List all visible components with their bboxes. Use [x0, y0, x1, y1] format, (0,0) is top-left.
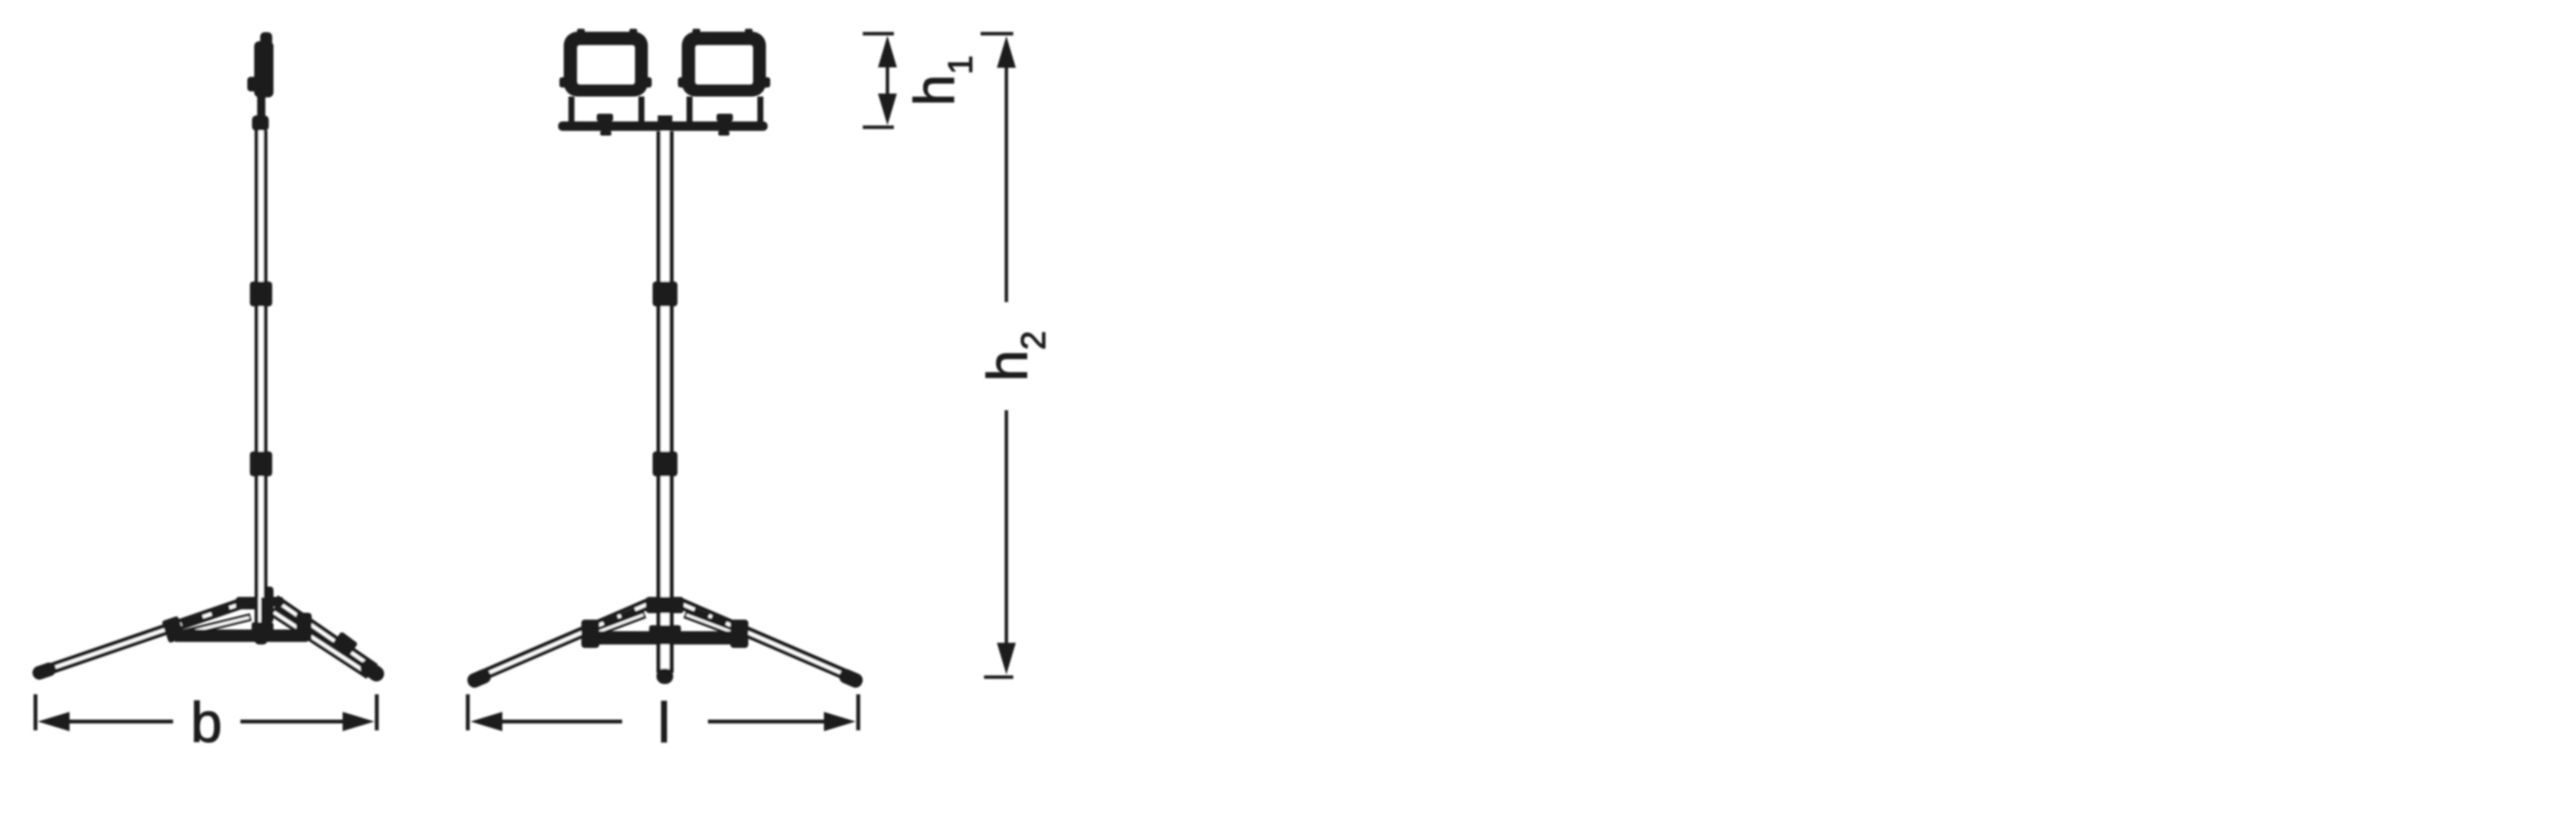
- front view: right brace tube white core: [687, 615, 736, 634]
- front view: left head right pivot ear: [642, 77, 652, 88]
- side view: hub right lobe: [270, 597, 283, 607]
- front view: tripod hub block: [646, 597, 684, 614]
- dimension b: left line segment: [68, 719, 173, 723]
- dimension h1: up arrowhead: [878, 36, 897, 68]
- front view: left head top screw bumps: [577, 29, 585, 34]
- dimension h2: down arrowhead: [997, 643, 1016, 675]
- front view: right leg sleeve dash 1: [692, 608, 709, 621]
- dimension h1: connecting line: [886, 66, 890, 95]
- side view: pole collar clamp 1: [250, 281, 272, 306]
- front view: left head tab above crossbar: [597, 114, 613, 122]
- front view: right leg sleeve dash 2: [709, 614, 726, 628]
- front view: tab under crossbar left: [600, 131, 611, 136]
- svg-text:l: l: [658, 691, 671, 754]
- dimension b: right line segment: [240, 719, 344, 723]
- dimension h2: bottom tick: [984, 675, 1013, 679]
- front view: left yoke left arm: [568, 97, 574, 123]
- side view: pole collar clamp 2: [250, 451, 272, 476]
- side view: front foot cap: [31, 661, 58, 681]
- side view: front leg sleeve dash 2: [180, 614, 204, 629]
- front view: right yoke right arm: [757, 97, 763, 123]
- front view: mounting crossbar: [558, 122, 768, 131]
- dimension b: left arrowhead: [38, 712, 70, 732]
- front view: slider block on pole: [649, 626, 681, 642]
- dimension h1: down arrowhead: [878, 94, 897, 125]
- front view: left leg clamp block: [581, 620, 599, 648]
- front view: right leg clamp block: [731, 620, 749, 648]
- dimension l: left arrowhead: [471, 712, 502, 732]
- dimension h1: bottom tick: [863, 125, 894, 129]
- front view: pole collar clamp 1: [653, 281, 677, 306]
- side view: rear leg tube A white core: [276, 602, 373, 668]
- front view: left brace tube white core: [594, 615, 643, 634]
- front view: right brace tube black: [685, 614, 738, 634]
- dimension l: left line segment: [501, 719, 623, 723]
- front view: left head left pivot ear: [560, 77, 569, 88]
- side view: rear leg tube B white core: [274, 613, 368, 674]
- side view: front leg sleeve dash 1: [210, 604, 231, 619]
- dimension l: right extension tick: [856, 694, 860, 730]
- side view: yoke arm edge-on: [258, 94, 266, 118]
- front view: center block above crossbar: [658, 116, 672, 123]
- front view: right head right pivot ear: [761, 77, 770, 88]
- side view: front leg tube white core: [46, 605, 239, 671]
- dimension l: left extension tick: [466, 694, 471, 730]
- side view: telescopic pole outer: [255, 130, 268, 642]
- front view: right flood light head frame: [682, 32, 766, 97]
- front view: right leg tube white core: [683, 604, 849, 676]
- front view: right yoke left arm: [687, 97, 693, 123]
- dimension h2: top tick: [981, 32, 1013, 35]
- dimension h2: upper line segment: [1005, 67, 1008, 303]
- front view: left leg tube black: [478, 603, 649, 677]
- side view: rear leg tube A black: [275, 600, 374, 669]
- front view: right head top screw bumps: [693, 29, 701, 34]
- dimension l: right arrowhead: [824, 712, 856, 732]
- front view: right head left pivot ear: [678, 77, 688, 88]
- front view: telescopic pole outer: [657, 131, 674, 673]
- dimension h1: top tick: [863, 32, 894, 35]
- front view: left yoke right arm: [639, 97, 645, 123]
- front view: left leg tube white core: [481, 604, 647, 676]
- front view: right foot cap: [837, 667, 865, 690]
- dimension b: left extension tick: [33, 694, 38, 730]
- side view: rear foot cap: [357, 657, 387, 684]
- front view: left foot cap: [465, 667, 493, 690]
- side view: front brace tube black: [177, 617, 251, 635]
- svg-text:b: b: [191, 691, 222, 754]
- dimension b: right extension tick: [375, 694, 380, 730]
- side view: hub left wing: [236, 597, 261, 610]
- side view: mounting crossbar edge-on: [252, 116, 270, 131]
- front view: left leg sleeve dash 2: [603, 614, 620, 628]
- side view: lamp head edge-on body: [254, 41, 274, 98]
- side view: rear leg small block: [332, 632, 358, 657]
- side view: pole core sliver through hub: [258, 597, 261, 622]
- dimension h2: lower line segment: [1005, 410, 1008, 645]
- front view: left brace tube black: [592, 614, 645, 634]
- front view: horizontal strut: [588, 632, 740, 645]
- front view: left flood light head frame: [564, 32, 648, 97]
- dimension b: right arrowhead: [343, 712, 374, 732]
- side view: front leg tube black: [44, 604, 240, 672]
- side view: slider block: [252, 622, 274, 638]
- front view: right leg tube black: [681, 603, 852, 677]
- dimension l: right line segment: [708, 719, 826, 723]
- side view: lamp pivot knob: [247, 77, 258, 92]
- side view: column bottom tip: [255, 633, 268, 645]
- side view: lamp head edge-on top knob: [260, 33, 272, 46]
- side view: front leg clamp block: [161, 615, 185, 643]
- front view: right head tab above crossbar: [717, 114, 733, 122]
- front view: left leg sleeve dash 1: [620, 608, 637, 621]
- side view: tripod hub block: [260, 587, 274, 623]
- front view: pole collar clamp 2: [653, 451, 677, 476]
- front view: pole inner white core: [661, 131, 670, 669]
- side view: right clamp block: [296, 613, 312, 641]
- front view: lower pole end cap: [657, 669, 674, 684]
- dimension h2: up arrowhead: [997, 36, 1016, 68]
- side view: rear leg tube B black: [272, 611, 369, 675]
- front view: tab under crossbar right: [719, 131, 730, 136]
- side view: front brace tube white core: [179, 618, 249, 635]
- side view: horizontal strut: [175, 630, 307, 643]
- front view: hub core cover: [649, 597, 681, 614]
- side view: pole inner white core: [258, 130, 264, 597]
